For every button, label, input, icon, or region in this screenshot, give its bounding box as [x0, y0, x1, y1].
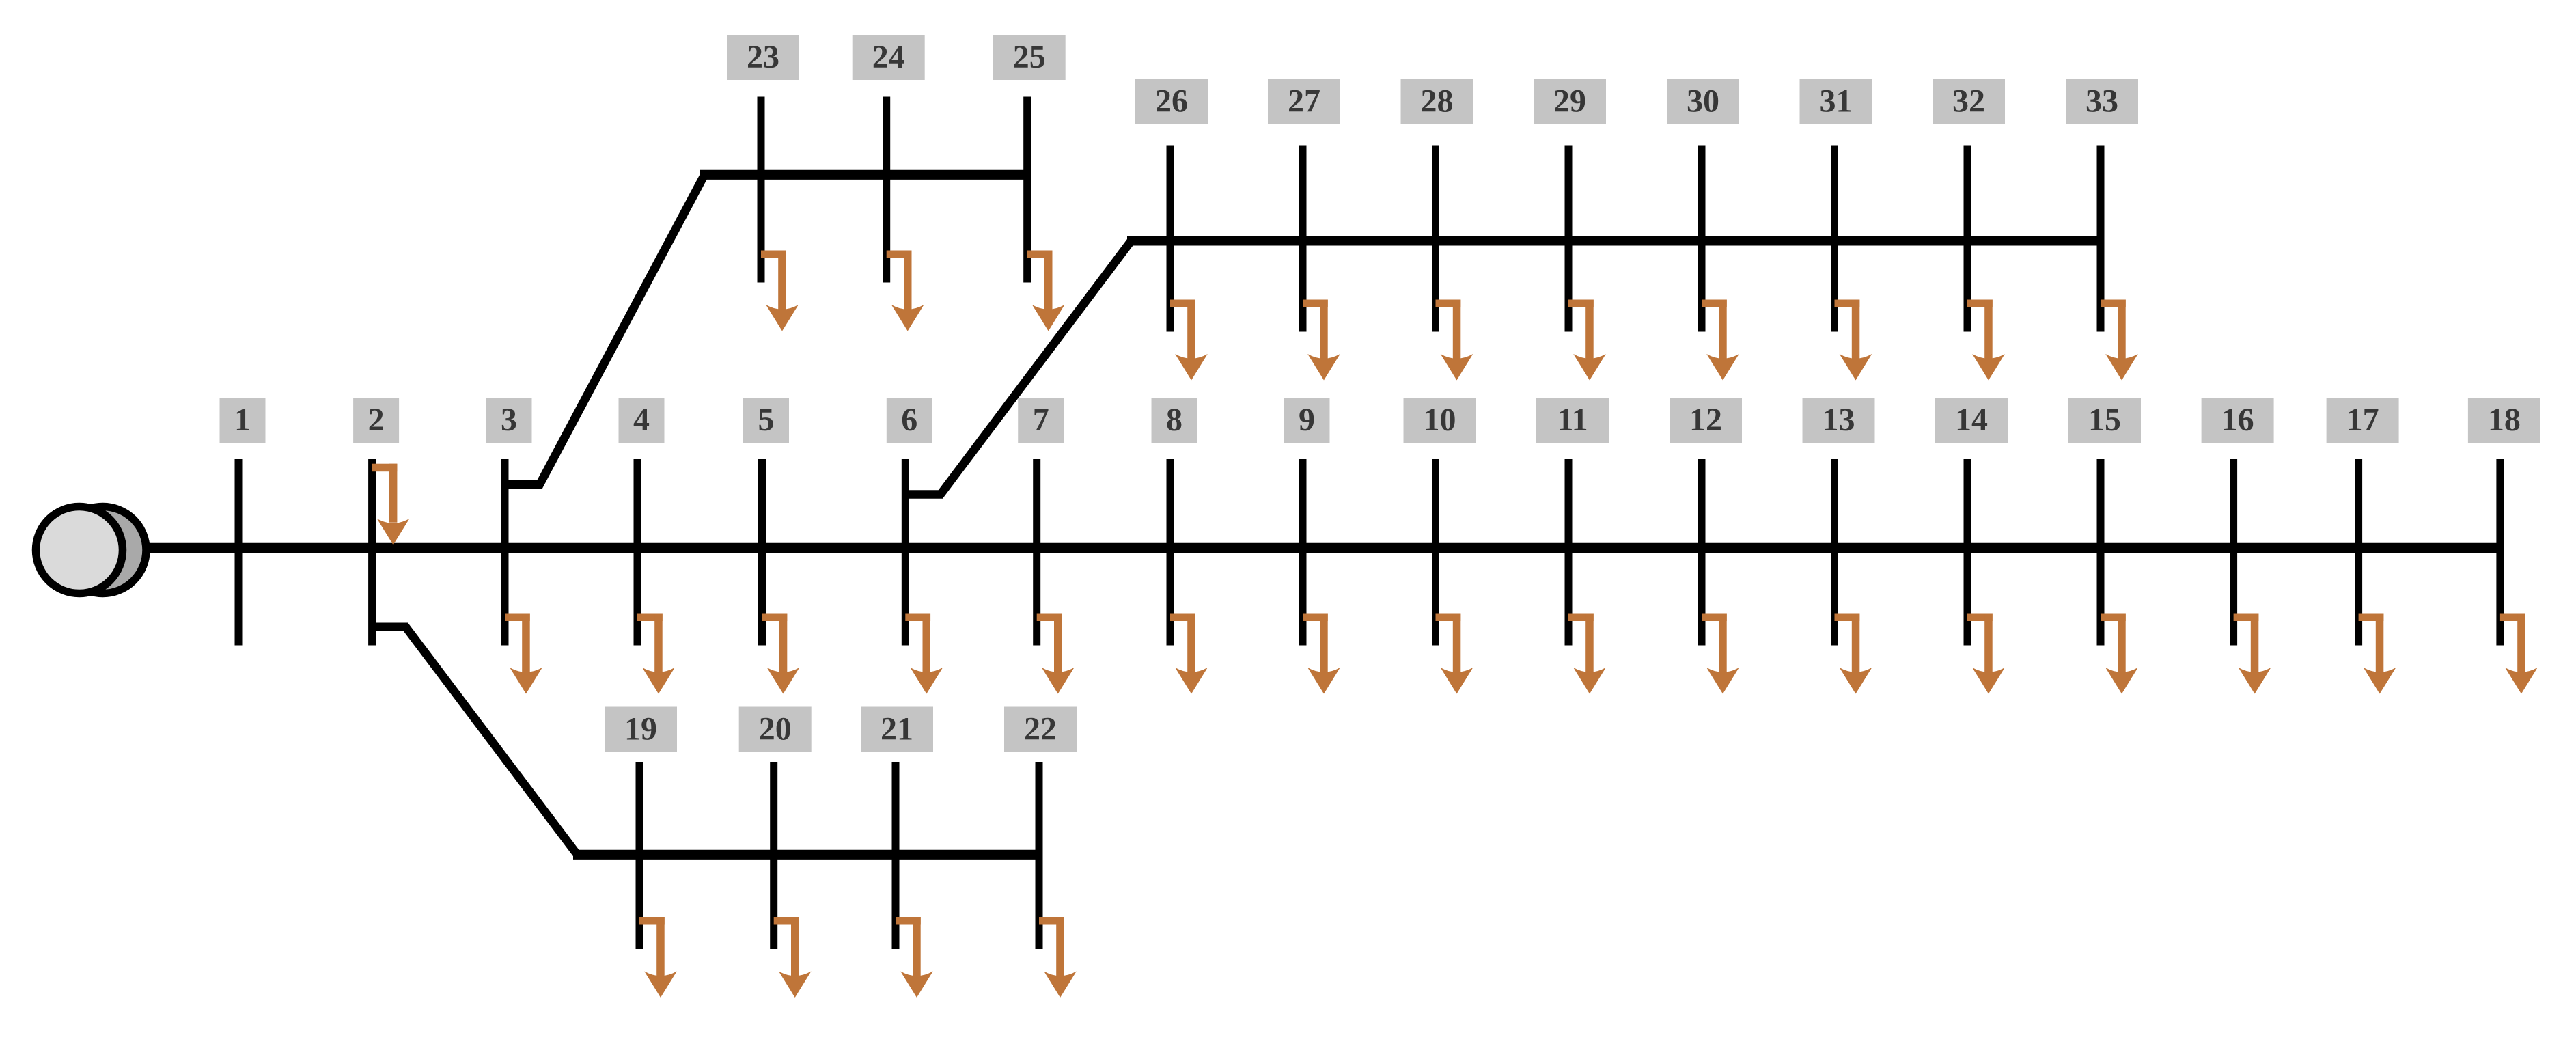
svg-text:28: 28	[1421, 83, 1454, 120]
svg-text:15: 15	[2088, 402, 2121, 438]
bus 16 label	[2202, 398, 2274, 443]
load arrow bus 6	[905, 614, 943, 694]
bus 14 label	[1935, 398, 2008, 443]
bus 25 label	[993, 35, 1066, 80]
svg-text:3: 3	[501, 402, 517, 438]
bus 27 label	[1268, 79, 1340, 124]
bus 12	[1698, 459, 1706, 646]
svg-text:9: 9	[1299, 402, 1315, 438]
bus 11 label	[1536, 398, 1609, 443]
svg-text:22: 22	[1024, 711, 1057, 747]
bus 28	[1432, 146, 1439, 332]
svg-text:21: 21	[881, 711, 913, 747]
load arrow bus 21	[896, 917, 933, 998]
bus 19 label	[605, 707, 677, 752]
svg-text:8: 8	[1166, 402, 1182, 438]
bus 28 label	[1401, 79, 1473, 124]
load arrow bus 23	[761, 251, 799, 331]
svg-text:13: 13	[1823, 402, 1855, 438]
bus 33 label	[2066, 79, 2138, 124]
load arrow bus 19	[639, 917, 677, 998]
load arrow bus 16	[2234, 614, 2271, 694]
bus 29 label	[1534, 79, 1606, 124]
bus 8 label	[1152, 398, 1197, 443]
branch wire 26-33	[1127, 236, 2105, 245]
bus 3	[501, 459, 509, 646]
load arrow bus 10	[1436, 614, 1473, 694]
bus 23 label	[727, 35, 799, 80]
bus 24	[883, 97, 890, 283]
load arrow bus 9	[1303, 614, 1340, 694]
bus 4 label	[619, 398, 665, 443]
svg-text:4: 4	[633, 402, 650, 438]
bus 4	[634, 459, 641, 646]
feeder wire bus1-bus18	[143, 543, 2504, 553]
bus 2	[368, 459, 376, 646]
svg-text:10: 10	[1424, 402, 1456, 438]
bus 14	[1964, 459, 1971, 646]
load arrow bus 29	[1568, 300, 1606, 381]
bus 32	[1964, 146, 1971, 332]
load arrow bus 7	[1037, 614, 1075, 694]
bus 1	[235, 459, 243, 646]
bus 27	[1299, 146, 1307, 332]
load arrow bus 27	[1303, 300, 1340, 381]
bus 13	[1831, 459, 1838, 646]
bus 17	[2355, 459, 2362, 646]
bus 16	[2230, 459, 2237, 646]
load arrow bus 31	[1835, 300, 1872, 381]
transformer T1 (substation source)	[36, 507, 147, 594]
svg-text:19: 19	[624, 711, 657, 747]
svg-text:6: 6	[901, 402, 917, 438]
svg-text:29: 29	[1553, 83, 1586, 120]
bus 10 label	[1404, 398, 1476, 443]
svg-text:24: 24	[872, 39, 905, 75]
load arrow bus 30	[1702, 300, 1739, 381]
bus 30	[1698, 146, 1706, 332]
wire bus6 to branch 26-33	[905, 241, 1131, 494]
bus 1 label	[220, 398, 266, 443]
load arrow bus 26	[1170, 300, 1208, 381]
bus 7	[1033, 459, 1040, 646]
bus 15	[2097, 459, 2105, 646]
load arrow bus 24	[887, 251, 924, 331]
svg-text:1: 1	[234, 402, 251, 438]
svg-text:16: 16	[2221, 402, 2254, 438]
load arrow bus 11	[1568, 614, 1606, 694]
bus 12 label	[1670, 398, 1742, 443]
bus 6	[902, 459, 909, 646]
svg-text:23: 23	[747, 39, 779, 75]
bus 26	[1167, 146, 1174, 332]
svg-text:18: 18	[2488, 402, 2521, 438]
svg-text:12: 12	[1689, 402, 1722, 438]
load arrow bus 3	[505, 614, 542, 694]
bus 17 label	[2327, 398, 2399, 443]
load arrow bus 14	[1967, 614, 2005, 694]
svg-text:20: 20	[759, 711, 792, 747]
bus 3 label	[486, 398, 532, 443]
bus 29	[1565, 146, 1573, 332]
load arrow bus 12	[1702, 614, 1739, 694]
wire bus2 to branch 19-22	[372, 627, 577, 855]
bus 15 label	[2068, 398, 2141, 443]
bus 20	[770, 762, 777, 949]
branch wire 23-25	[700, 170, 1031, 180]
svg-text:32: 32	[1952, 83, 1985, 120]
bus 20 label	[739, 707, 812, 752]
load arrow bus 5	[762, 614, 800, 694]
load arrow bus 32	[1967, 300, 2005, 381]
bus 5	[758, 459, 766, 646]
bus 26 label	[1135, 79, 1208, 124]
svg-text:30: 30	[1687, 83, 1719, 120]
bus 33	[2097, 146, 2105, 332]
bus 11	[1565, 459, 1573, 646]
bus 13 label	[1803, 398, 1875, 443]
svg-text:11: 11	[1557, 402, 1588, 438]
bus 32 label	[1933, 79, 2005, 124]
bus 9 label	[1284, 398, 1330, 443]
svg-text:5: 5	[758, 402, 775, 438]
bus 5 label	[743, 398, 789, 443]
load arrow bus 2	[372, 464, 410, 545]
bus 31	[1831, 146, 1838, 332]
bus 18 label	[2468, 398, 2540, 443]
svg-text:26: 26	[1155, 83, 1188, 120]
branch wire 19-22	[573, 850, 1043, 860]
bus 2 label	[353, 398, 399, 443]
bus 10	[1432, 459, 1439, 646]
svg-text:25: 25	[1013, 39, 1046, 75]
bus 24 label	[853, 35, 925, 80]
svg-text:7: 7	[1033, 402, 1049, 438]
bus 30 label	[1667, 79, 1739, 124]
bus 7 label	[1018, 398, 1064, 443]
load arrow bus 25	[1027, 251, 1065, 331]
load arrow bus 22	[1039, 917, 1077, 998]
bus 23	[758, 97, 765, 283]
bus 22 label	[1004, 707, 1077, 752]
load arrow bus 28	[1436, 300, 1473, 381]
load arrow bus 8	[1170, 614, 1208, 694]
load arrow bus 17	[2359, 614, 2396, 694]
svg-text:2: 2	[368, 402, 385, 438]
svg-text:33: 33	[2086, 83, 2118, 120]
bus 19	[636, 762, 643, 949]
bus 21	[892, 762, 900, 949]
bus 21 label	[861, 707, 933, 752]
bus 6 label	[887, 398, 932, 443]
load arrow bus 18	[2500, 614, 2538, 694]
svg-text:31: 31	[1820, 83, 1853, 120]
bus 8	[1167, 459, 1174, 646]
load arrow bus 33	[2101, 300, 2138, 381]
load arrow bus 13	[1835, 614, 1872, 694]
bus 31 label	[1800, 79, 1872, 124]
bus 18	[2496, 459, 2504, 646]
bus 25	[1023, 97, 1031, 283]
load arrow bus 4	[637, 614, 675, 694]
load arrow bus 15	[2101, 614, 2138, 694]
svg-text:17: 17	[2346, 402, 2379, 438]
svg-text:27: 27	[1288, 83, 1320, 120]
wire bus3 to branch 23-25	[505, 175, 704, 484]
bus 9	[1299, 459, 1307, 646]
svg-text:14: 14	[1955, 402, 1988, 438]
bus 22	[1036, 762, 1043, 949]
load arrow bus 20	[774, 917, 812, 998]
